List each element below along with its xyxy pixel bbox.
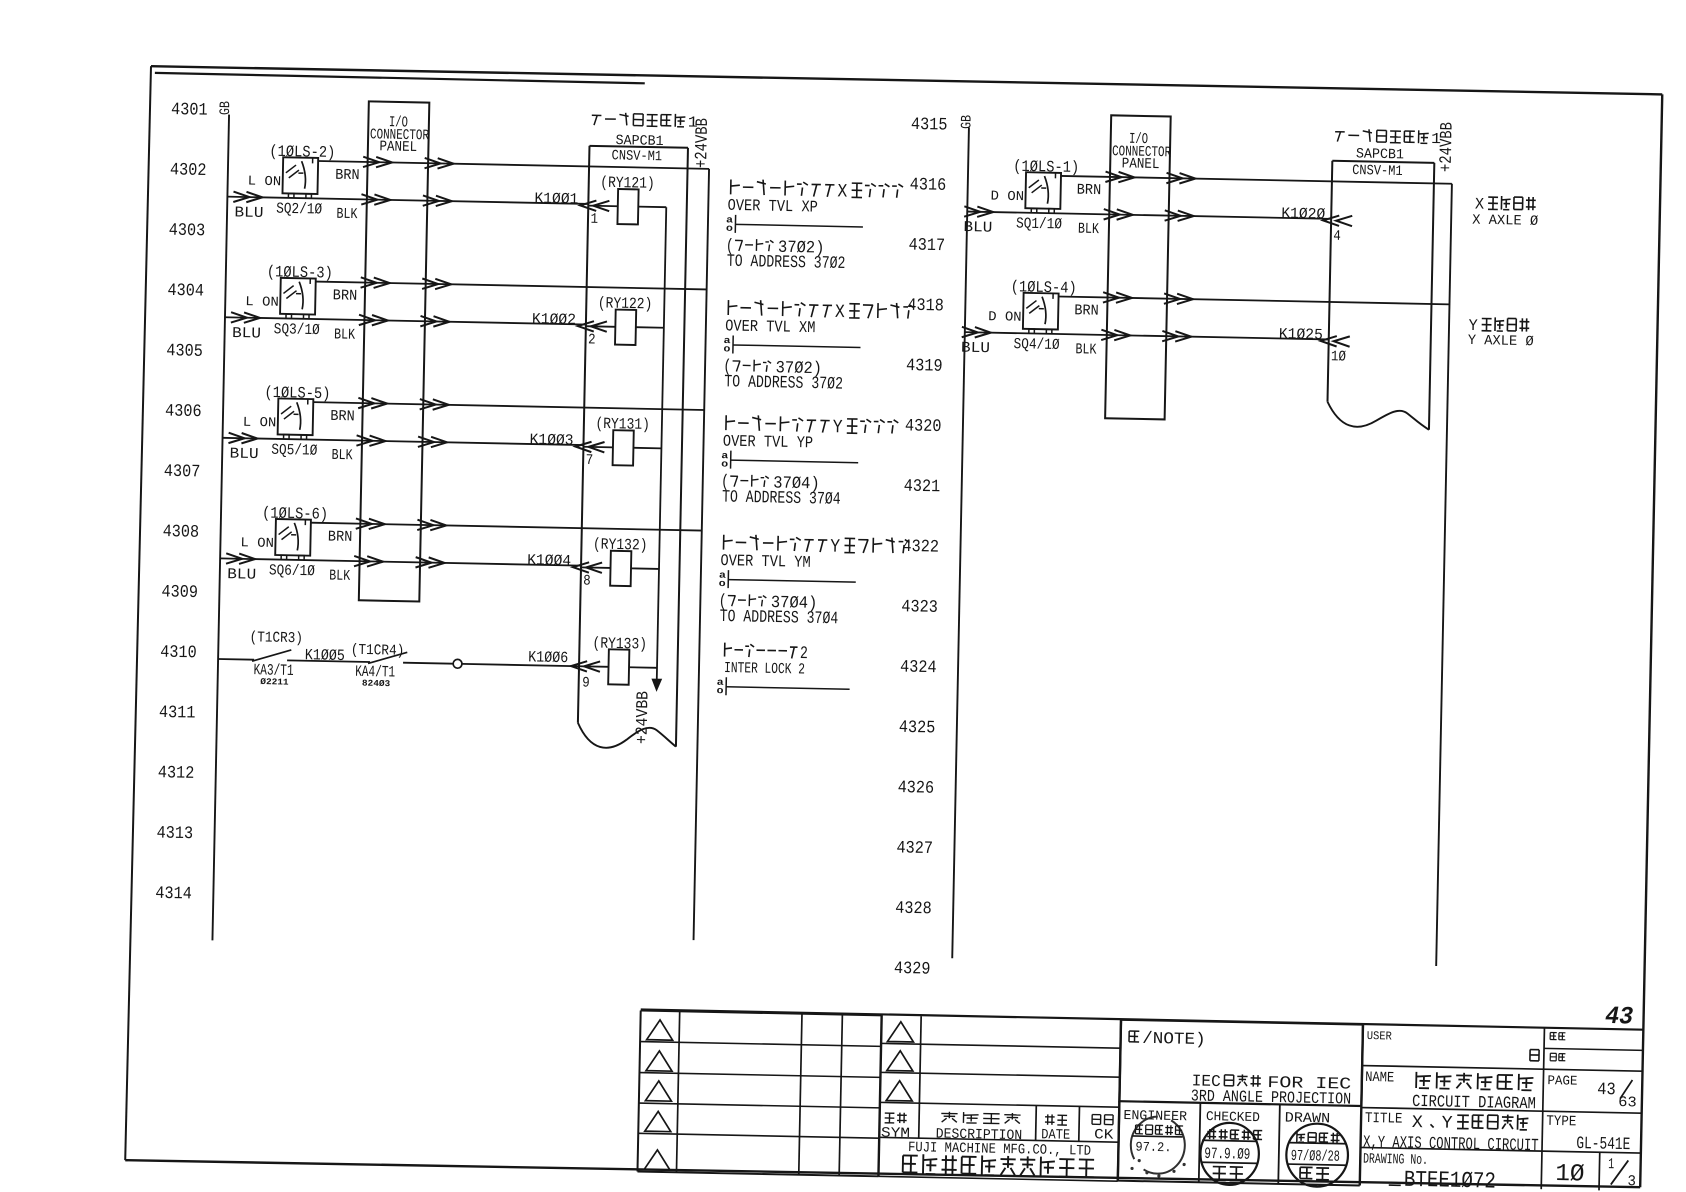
power label +24VBB (bottom arrow)	[633, 691, 653, 744]
title block revision table A	[637, 1011, 881, 1177]
power +24VBB vertical bus (left)	[694, 169, 710, 940]
revision triangles table A	[644, 1020, 673, 1170]
svg-text:o: o	[719, 578, 726, 589]
handwritten page number 43	[1605, 1002, 1634, 1032]
svg-text:CIRCUIT DIAGRAM: CIRCUIT DIAGRAM	[1412, 1093, 1536, 1114]
wire BRN row 4304 from SQ3/10 through I/O panel and RY122 board to +24VBB	[316, 276, 707, 294]
annotation (アドレス 3704) / TO ADDRESS 3704	[718, 592, 839, 630]
annotation X axis decel point	[1472, 195, 1539, 230]
svg-text:SQ2/1Ø: SQ2/1Ø	[276, 200, 322, 219]
svg-text:X: X	[835, 301, 845, 323]
relay coil RY133	[579, 649, 658, 686]
svg-text:o: o	[721, 459, 728, 470]
pin 9 of CNSV-M1	[582, 675, 590, 691]
svg-text:BLK: BLK	[331, 447, 352, 464]
node GB (left bus label)	[218, 101, 234, 116]
label SQ2/10	[276, 200, 322, 219]
label (RY131)	[595, 415, 650, 434]
annotation OVER TVL XP (Japanese) row 4316	[727, 178, 903, 218]
label BLU (SQ4/10)	[961, 340, 990, 358]
svg-text:BLU: BLU	[229, 446, 258, 464]
wire BLU/BLK row 4308 from GB bus under SQ6/10 to panel and SAPCB1	[220, 553, 581, 571]
TITLE cell: X,Y AXIS CONTROL CIRCUIT	[1363, 1111, 1539, 1156]
svg-text:4318: 4318	[907, 296, 944, 317]
svg-text:97.2.: 97.2.	[1135, 1140, 1171, 1156]
svg-text:4317: 4317	[908, 235, 945, 256]
svg-text:TO ADDRESS 37Ø4: TO ADDRESS 37Ø4	[719, 608, 838, 629]
annotation (アドレス 3702) / TO ADDRESS 3702	[723, 357, 844, 395]
svg-text:D ON: D ON	[988, 310, 1022, 326]
svg-text:L ON: L ON	[243, 416, 277, 432]
svg-text:4326: 4326	[897, 778, 934, 799]
label L ON (SQ6/10)	[240, 536, 274, 552]
label I/O CONNECTOR PANEL (right)	[1112, 130, 1172, 173]
svg-text:4307: 4307	[164, 462, 201, 483]
svg-text:SQ1/1Ø: SQ1/1Ø	[1016, 215, 1062, 234]
svg-text:NAME: NAME	[1365, 1070, 1394, 1087]
svg-text:Y: Y	[830, 536, 840, 558]
svg-text:X: X	[837, 180, 847, 202]
node GB (right bus label)	[959, 115, 975, 130]
wire BRN row 4318 from SQ4/10 through I/O panel and SAPCB1 to +24VBB	[1058, 291, 1449, 309]
label USER / dono	[1366, 1029, 1539, 1061]
label BRN (SQ5/10)	[330, 408, 355, 425]
svg-text:K1ØØ1: K1ØØ1	[534, 190, 578, 209]
DRAWING NO cell BTEE1072	[1362, 1152, 1496, 1192]
svg-text:o: o	[726, 223, 733, 234]
svg-text:BLK: BLK	[329, 567, 350, 584]
maker name FUJI MACHINE MFG.CO., LTD	[903, 1140, 1095, 1177]
wire between T1CR3 and T1CR4	[287, 660, 370, 662]
svg-text:4325: 4325	[899, 718, 936, 739]
label BLK (SQ6/10)	[329, 567, 350, 584]
svg-text:TO ADDRESS 37Ø2: TO ADDRESS 37Ø2	[724, 373, 843, 394]
svg-text:/NOTE): /NOTE)	[1142, 1030, 1206, 1050]
svg-text:1: 1	[688, 114, 698, 132]
svg-text:4305: 4305	[166, 341, 203, 362]
svg-text:4312: 4312	[158, 763, 195, 784]
svg-text:4311: 4311	[159, 703, 196, 724]
PAGE cell 43/63	[1547, 1073, 1637, 1111]
svg-text:OVER TVL YM: OVER TVL YM	[720, 551, 811, 572]
label SQ4/10	[1013, 335, 1059, 354]
svg-text:1Ø: 1Ø	[1331, 349, 1347, 365]
svg-text:(1ØLS-6): (1ØLS-6)	[262, 504, 328, 523]
svg-text:9: 9	[582, 675, 590, 691]
contact KA4/T1 (T1CR4)	[368, 651, 407, 664]
svg-text:OVER TVL XP: OVER TVL XP	[727, 196, 818, 217]
svg-text:K1ØØ6: K1ØØ6	[528, 648, 568, 667]
svg-text:K1Ø2Ø: K1Ø2Ø	[1281, 205, 1325, 224]
svg-text:TYPE: TYPE	[1546, 1114, 1576, 1131]
label address 82403	[362, 679, 390, 690]
label servo board (Japanese) SAPCB1 (left)	[591, 112, 698, 166]
svg-text:BLU: BLU	[234, 204, 263, 222]
wire from T1CR4 to junction node	[403, 663, 453, 664]
svg-text:4316: 4316	[910, 175, 947, 196]
pin 7 of CNSV-M1	[585, 453, 593, 469]
relay coil RY132	[581, 550, 660, 587]
label BLK (SQ2/10)	[336, 206, 357, 223]
svg-text:4310: 4310	[160, 643, 197, 664]
svg-text:BRN: BRN	[330, 408, 355, 425]
label SQ6/10	[269, 561, 315, 580]
svg-text:4301: 4301	[171, 100, 208, 121]
svg-text:PANEL: PANEL	[379, 139, 417, 156]
label BRN (SQ4/10)	[1074, 302, 1099, 319]
label (RY133)	[592, 634, 647, 653]
svg-text:OVER TVL XM: OVER TVL XM	[725, 316, 816, 337]
svg-text:4324: 4324	[900, 657, 937, 678]
svg-text:TITLE: TITLE	[1365, 1111, 1403, 1128]
wire BLU/BLK row 4316 from GB bus under SQ1/10 to panel and SAPCB1	[964, 206, 1331, 224]
svg-text:K1Ø25: K1Ø25	[1279, 325, 1323, 344]
svg-text:824Ø3: 824Ø3	[362, 679, 390, 690]
svg-text:(T1CR3): (T1CR3)	[249, 629, 303, 647]
io marker and underline OVER TVL XM	[723, 335, 860, 357]
label (10LS-5)	[264, 384, 330, 403]
label BLK (SQ5/10)	[331, 447, 352, 464]
svg-text:4315: 4315	[911, 115, 948, 136]
svg-text:4308: 4308	[162, 522, 199, 543]
relay coil RY131	[583, 430, 662, 467]
relay coil RY122	[586, 309, 665, 346]
label BLU (SQ6/10)	[227, 566, 256, 584]
svg-text:1: 1	[1608, 1156, 1614, 1173]
annotation OVER TVL YM (Japanese) row 4322	[720, 533, 909, 573]
title block revision table B (SYM/DESCRIPTION)	[878, 1015, 1121, 1181]
power label +24VBB (left top)	[693, 118, 713, 168]
svg-text:o: o	[716, 685, 723, 696]
annotation Y axis decel point	[1468, 317, 1535, 350]
label BLK (SQ4/10)	[1075, 341, 1096, 358]
svg-text:GL-541E: GL-541E	[1576, 1134, 1630, 1155]
svg-text:(RY131): (RY131)	[595, 415, 650, 434]
pin 4 of CNSV-M1 (right)	[1333, 229, 1341, 245]
label servo board (Japanese) SAPCB1 (right)	[1334, 128, 1441, 181]
svg-text:CK: CK	[1094, 1127, 1114, 1143]
power label +24VBB (right top)	[1438, 122, 1458, 172]
svg-text:4328: 4328	[895, 899, 932, 920]
svg-text:1: 1	[1431, 130, 1441, 148]
label BLU (SQ2/10)	[234, 204, 263, 222]
svg-text:4327: 4327	[896, 838, 933, 859]
junction node (open circle) row 4310	[453, 659, 462, 668]
svg-text:BRN: BRN	[333, 287, 358, 304]
svg-text:BLK: BLK	[1078, 221, 1099, 238]
io marker and underline INTER LOCK 2	[716, 677, 849, 699]
servo board SAPCB1 box with CNSV-M1 header (left)	[577, 146, 688, 749]
svg-text:63: 63	[1618, 1095, 1637, 1111]
svg-text:4320: 4320	[905, 416, 942, 437]
svg-text:BLU: BLU	[961, 340, 990, 358]
io marker and underline OVER TVL YP	[721, 450, 858, 472]
svg-text:TO ADDRESS 37Ø4: TO ADDRESS 37Ø4	[722, 488, 841, 509]
svg-text:4329: 4329	[894, 959, 931, 980]
label BLK (SQ3/10)	[334, 326, 355, 343]
label (10LS-6)	[262, 504, 328, 523]
wire BLU/BLK row 4306 from GB bus under SQ5/10 to panel and SAPCB1	[222, 433, 583, 451]
wire row 4310 from GB bus to contact T1CR3	[218, 658, 254, 661]
svg-text:o: o	[723, 343, 730, 354]
label (RY122)	[598, 294, 653, 313]
label I/O CONNECTOR PANEL (left)	[370, 114, 430, 157]
limit switch SQ3/10 (10LS-3)	[280, 278, 316, 319]
svg-text:BRN: BRN	[1077, 182, 1102, 199]
wire BLU/BLK row 4302 from GB bus under SQ2/10 to panel and SAPCB1	[227, 191, 588, 209]
label KA4/T1	[355, 663, 395, 682]
label (T1CR3)	[249, 629, 303, 647]
svg-text:1: 1	[590, 212, 598, 228]
wire BRN row 4306 from SQ5/10 through I/O panel and RY131 board to +24VBB	[313, 397, 704, 415]
svg-text:BLU: BLU	[232, 325, 261, 343]
label (T1CR4)	[351, 642, 405, 660]
label BRN (SQ1/10)	[1077, 182, 1102, 199]
svg-text:BRN: BRN	[1074, 302, 1099, 319]
label BLK (SQ1/10)	[1078, 221, 1099, 238]
svg-text:3RD ANGLE PROJECTION: 3RD ANGLE PROJECTION	[1191, 1086, 1352, 1108]
svg-text:4: 4	[1333, 229, 1341, 245]
svg-text:4304: 4304	[167, 281, 204, 302]
title block right section grid	[637, 1010, 1643, 1192]
svg-text:(1ØLS-1): (1ØLS-1)	[1013, 158, 1079, 177]
left row number column 4301-4314	[155, 100, 208, 904]
stamp DRAWN (hanko) 97/08/28 Mizukoshi	[1286, 1123, 1349, 1187]
label BLU (SQ1/10)	[963, 219, 992, 237]
svg-text:SYM: SYM	[881, 1125, 910, 1142]
svg-text:Y AXLE Ø: Y AXLE Ø	[1468, 333, 1535, 350]
label (RY132)	[593, 535, 648, 554]
label BLU (SQ3/10)	[232, 325, 261, 343]
wire BLU/BLK row 4318 from GB bus under SQ4/10 to panel and SAPCB1	[962, 327, 1329, 345]
svg-text:8: 8	[583, 573, 591, 589]
label BRN (SQ3/10)	[333, 287, 358, 304]
wire BRN row 4302 from SQ2/10 through I/O panel and RY121 board to +24VBB	[318, 156, 709, 174]
svg-text:+24VBB: +24VBB	[633, 691, 653, 744]
svg-text:97/Ø8/28: 97/Ø8/28	[1291, 1147, 1340, 1166]
signal arrow and label K1002	[532, 310, 607, 332]
svg-text:3: 3	[1627, 1173, 1636, 1190]
wire BLU/BLK row 4304 from GB bus under SQ3/10 to panel and SAPCB1	[225, 312, 586, 330]
revision triangles table B	[886, 1022, 914, 1102]
signal arrow and label K1001	[534, 190, 609, 212]
label (RY121)	[600, 174, 655, 193]
svg-text:BLU: BLU	[227, 566, 256, 584]
svg-text:4313: 4313	[156, 823, 193, 844]
limit switch SQ5/10 (10LS-5)	[278, 398, 314, 439]
I/O connector panel box (left)	[359, 101, 430, 601]
svg-text:SQ6/1Ø: SQ6/1Ø	[269, 561, 315, 580]
io marker and underline OVER TVL XP	[726, 214, 863, 236]
wire relay common return line to +24VBB (left)	[652, 207, 671, 690]
svg-text:GB: GB	[218, 101, 234, 116]
svg-text:(RY133): (RY133)	[592, 634, 647, 653]
signal arrow and label K1025	[1279, 325, 1350, 347]
svg-text:CNSV-M1: CNSV-M1	[611, 148, 662, 165]
svg-text:BLK: BLK	[334, 326, 355, 343]
svg-text:PAGE: PAGE	[1547, 1073, 1577, 1089]
label BRN (SQ2/10)	[335, 167, 360, 184]
label D ON (SQ1/10)	[990, 190, 1024, 206]
svg-text:4322: 4322	[902, 537, 939, 558]
note text IEC / 3RD ANGLE PROJECTION	[1191, 1071, 1352, 1108]
label L ON (SQ2/10)	[248, 175, 282, 191]
svg-text:1Ø: 1Ø	[1555, 1161, 1585, 1189]
svg-text:TO ADDRESS 37Ø2: TO ADDRESS 37Ø2	[727, 253, 846, 274]
limit switch SQ6/10 (10LS-6)	[275, 519, 311, 560]
label SQ5/10	[271, 441, 317, 460]
note box	[1119, 1020, 1363, 1106]
svg-text:SQ4/1Ø: SQ4/1Ø	[1013, 335, 1059, 354]
pin 1 of CNSV-M1	[590, 212, 598, 228]
svg-text:Y: Y	[1441, 1114, 1453, 1134]
label SQ3/10	[274, 320, 320, 339]
label (10LS-4)	[1011, 278, 1077, 297]
relay coil RY121	[588, 188, 667, 225]
svg-text:SAPCB1: SAPCB1	[615, 133, 663, 150]
wire BRN row 4308 from SQ6/10 through I/O panel and RY132 board to +24VBB	[311, 518, 702, 536]
label BLU (SQ5/10)	[229, 446, 258, 464]
wire GB vertical bus (left)	[212, 115, 229, 941]
svg-text:L ON: L ON	[245, 295, 279, 311]
servo board SAPCB1 box with CNSV-M1 header (right)	[1327, 161, 1434, 430]
table B header SYM DESCRIPTION DATE CK	[881, 1110, 1114, 1146]
svg-text:(1ØLS-4): (1ØLS-4)	[1011, 278, 1077, 297]
labels bunban seiban (part no cells)	[1550, 1033, 1566, 1062]
svg-text:K1ØØ4: K1ØØ4	[527, 551, 571, 570]
NAME cell: CIRCUIT DIAGRAM (denki kairo senzu)	[1365, 1070, 1537, 1114]
svg-text:L ON: L ON	[248, 175, 282, 191]
label L ON (SQ3/10)	[245, 295, 279, 311]
TYPE cell GL-541E	[1546, 1114, 1631, 1155]
stamp ENGINEER (hanko, smudged)	[1130, 1116, 1187, 1178]
svg-text:INTER LOCK 2: INTER LOCK 2	[724, 659, 805, 679]
approval cells ENGINEER CHECKED DRAWN	[1118, 1020, 1363, 1186]
svg-text:SAPCB1: SAPCB1	[1356, 146, 1404, 163]
label D ON (SQ4/10)	[988, 310, 1022, 326]
svg-text:SQ5/1Ø: SQ5/1Ø	[271, 441, 317, 460]
svg-text:USER: USER	[1367, 1029, 1392, 1043]
pin 10 of CNSV-M1 (right)	[1331, 349, 1347, 365]
svg-text:4321: 4321	[904, 477, 941, 498]
label BRN (SQ6/10)	[328, 528, 353, 545]
wire BRN row 4316 from SQ1/10 through I/O panel and SAPCB1 to +24VBB	[1061, 171, 1452, 189]
signal arrow and label K1003	[529, 431, 604, 453]
label KA3/T1	[253, 661, 293, 680]
label (10LS-1)	[1013, 158, 1079, 177]
wire GB vertical bus (right)	[952, 127, 969, 958]
svg-text:(1ØLS-5): (1ØLS-5)	[264, 384, 330, 403]
label K1006	[528, 648, 568, 667]
svg-text:PANEL: PANEL	[1122, 156, 1160, 173]
label K1005	[305, 646, 345, 665]
wire from junction to K1006 arrow at SAPCB1	[462, 659, 600, 672]
svg-text:Ø2211: Ø2211	[260, 677, 288, 688]
signal arrow and label K1020	[1281, 205, 1352, 227]
svg-text:43: 43	[1597, 1080, 1616, 1100]
svg-text:(1ØLS-3): (1ØLS-3)	[267, 263, 333, 282]
svg-text:X: X	[1475, 195, 1485, 213]
svg-text:(RY122): (RY122)	[598, 294, 653, 313]
svg-text:(T1CR4): (T1CR4)	[351, 642, 405, 660]
svg-text:OVER TVL YP: OVER TVL YP	[723, 432, 814, 453]
svg-text:97.9.Ø9: 97.9.Ø9	[1204, 1145, 1250, 1164]
svg-text:4319: 4319	[906, 356, 943, 377]
svg-text:4323: 4323	[901, 597, 938, 618]
stamp CHECKED (hanko) 97.9.09 Honda	[1200, 1122, 1263, 1185]
label L ON (SQ5/10)	[243, 416, 277, 432]
svg-text:4302: 4302	[170, 160, 207, 181]
signal arrow and label K1004	[527, 551, 602, 573]
limit switch SQ4/10 (10LS-4)	[1023, 293, 1059, 334]
right row number column 4315-4329	[894, 115, 948, 980]
svg-text:SQ3/1Ø: SQ3/1Ø	[274, 320, 320, 339]
annotation (アドレス 3704) / TO ADDRESS 3704	[721, 472, 842, 510]
annotation OVER TVL XM (Japanese) row 4318	[725, 299, 914, 339]
svg-text:43: 43	[1605, 1002, 1634, 1032]
label (10LS-2)	[269, 143, 335, 162]
svg-text:BLU: BLU	[963, 219, 992, 237]
pin 2 of CNSV-M1	[588, 332, 596, 348]
svg-text:GB: GB	[959, 115, 975, 130]
svg-text:BLK: BLK	[1075, 341, 1096, 358]
svg-text:BLK: BLK	[336, 206, 357, 223]
svg-text:2: 2	[588, 332, 596, 348]
pin 8 of CNSV-M1	[583, 573, 591, 589]
svg-text:7: 7	[585, 453, 593, 469]
annotation INTER LOCK 2 (Japanese) row 4324	[724, 642, 808, 678]
svg-text:4306: 4306	[165, 401, 202, 422]
svg-text:(1ØLS-2): (1ØLS-2)	[269, 143, 335, 162]
svg-text:4314: 4314	[155, 884, 192, 905]
svg-text:(RY132): (RY132)	[593, 535, 648, 554]
limit switch SQ2/10 (10LS-2)	[282, 157, 318, 198]
label SQ1/10	[1016, 215, 1062, 234]
svg-text:BRN: BRN	[335, 167, 360, 184]
label (10LS-3)	[267, 263, 333, 282]
annotation (アドレス 3702) / TO ADDRESS 3702	[725, 237, 846, 275]
svg-text:4309: 4309	[161, 582, 198, 603]
io marker and underline OVER TVL YM	[719, 570, 856, 592]
sheet 1/3	[1608, 1156, 1637, 1190]
label address 02211	[260, 677, 288, 688]
annotation OVER TVL YP (Japanese) row 4320	[723, 414, 899, 454]
svg-text:L ON: L ON	[240, 536, 274, 552]
sheet number 10	[1555, 1161, 1585, 1189]
svg-text:BRN: BRN	[328, 528, 353, 545]
contact KA3/T1 (T1CR3)	[252, 649, 291, 662]
svg-text:D ON: D ON	[990, 190, 1024, 206]
I/O connector panel box (right)	[1105, 115, 1171, 419]
svg-text:K1ØØ2: K1ØØ2	[532, 310, 576, 329]
svg-text:X: X	[1412, 1113, 1424, 1133]
svg-text:K1ØØ3: K1ØØ3	[529, 431, 573, 450]
svg-text:X AXLE Ø: X AXLE Ø	[1472, 213, 1539, 230]
svg-text:(RY121): (RY121)	[600, 174, 655, 193]
svg-text:CNSV-M1: CNSV-M1	[1352, 163, 1403, 180]
svg-text:Y: Y	[832, 416, 842, 438]
limit switch SQ1/10 (10LS-1)	[1025, 172, 1061, 213]
power +24VBB vertical bus (right)	[1436, 184, 1452, 966]
svg-text:DATE: DATE	[1041, 1127, 1070, 1144]
svg-text:BTEE1Ø72: BTEE1Ø72	[1404, 1167, 1497, 1192]
svg-text:4303: 4303	[169, 221, 206, 242]
